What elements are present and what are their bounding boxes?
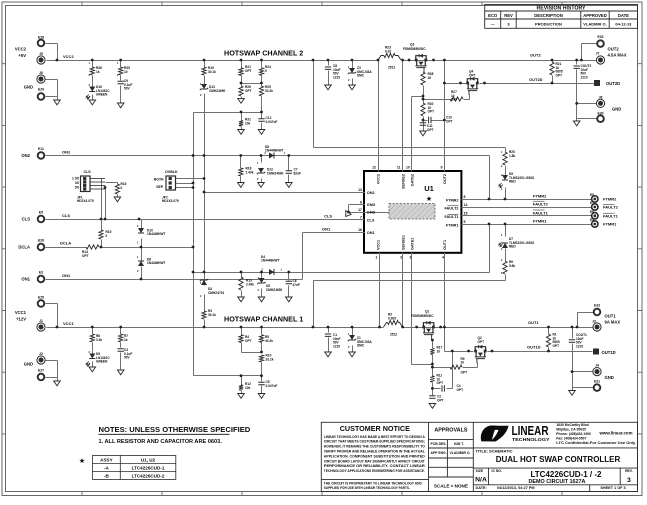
svg-text:13: 13 (358, 188, 362, 192)
svg-text:OPT: OPT (245, 89, 252, 93)
svg-text:0.02: 0.02 (385, 49, 391, 53)
svg-text:J5: J5 (39, 52, 43, 56)
svg-text:SUPPLIED FOR USE WITH LINEAR T: SUPPLIED FOR USE WITH LINEAR TECHNOLOGY … (324, 486, 410, 490)
svg-text:OUT2: OUT2 (608, 47, 620, 52)
svg-text:CMHZ4701: CMHZ4701 (208, 291, 225, 295)
svg-text:1k: 1k (124, 338, 128, 342)
svg-text:U1, U2: U1, U2 (141, 458, 156, 463)
svg-text:E30: E30 (597, 111, 603, 115)
svg-text:GATE2: GATE2 (411, 174, 415, 186)
svg-text:CIRCUIT THAT MEETS CUSTOMER-SU: CIRCUIT THAT MEETS CUSTOMER-SUPPLIED SPE… (324, 440, 425, 444)
svg-text:APPROVED: APPROVED (583, 13, 607, 18)
svg-text:1210: 1210 (333, 344, 340, 348)
svg-text:ON1: ON1 (322, 227, 331, 232)
svg-text:DEMO CIRCUIT 1627A: DEMO CIRCUIT 1627A (529, 479, 586, 485)
svg-text:1N4448HWT: 1N4448HWT (261, 259, 279, 263)
svg-text:9: 9 (440, 166, 442, 170)
svg-text:5.6k: 5.6k (509, 264, 515, 268)
svg-text:★: ★ (79, 457, 85, 465)
svg-text:OPT: OPT (245, 339, 252, 343)
svg-text:SMC: SMC (357, 74, 365, 78)
svg-text:12: 12 (372, 166, 376, 170)
svg-text:OPT: OPT (553, 344, 560, 348)
svg-text:OUT2: OUT2 (443, 174, 447, 184)
svg-text:E3: E3 (39, 271, 43, 275)
svg-text:9A MAX: 9A MAX (605, 320, 621, 325)
svg-text:OUT1: OUT1 (605, 314, 617, 319)
svg-text:30.1k: 30.1k (208, 313, 216, 317)
svg-text:CLS: CLS (367, 218, 375, 222)
svg-text:OPT: OPT (427, 128, 434, 132)
svg-text:E11: E11 (38, 147, 44, 151)
svg-text:OPT: OPT (446, 119, 453, 123)
svg-text:2512: 2512 (390, 333, 397, 337)
svg-text:HOWEVER, IT REMAINS THE CUSTOM: HOWEVER, IT REMAINS THE CUSTOMER'S RESPO… (324, 445, 425, 449)
svg-text:FTMR2: FTMR2 (533, 194, 547, 199)
svg-text:+12V: +12V (16, 317, 26, 322)
svg-text:OUT1: OUT1 (443, 240, 447, 250)
svg-text:SEP.: SEP. (156, 185, 164, 189)
svg-text:OUT1D: OUT1D (602, 350, 616, 355)
svg-text:OPT: OPT (461, 371, 468, 375)
svg-text:E25: E25 (38, 295, 44, 299)
svg-text:J6: J6 (39, 71, 43, 75)
svg-text:PCB DES.: PCB DES. (431, 442, 447, 446)
svg-text:0.047uF: 0.047uF (266, 120, 278, 124)
svg-text:2.49k: 2.49k (246, 170, 254, 174)
svg-text:FTMR1: FTMR1 (533, 219, 547, 224)
svg-text:CLS: CLS (62, 213, 70, 218)
svg-text:APP ENG.: APP ENG. (431, 451, 447, 455)
svg-text:U1: U1 (424, 184, 434, 193)
svg-text:OPT: OPT (556, 73, 563, 77)
svg-text:1. ALL RESISTOR AND CAPACITOR: 1. ALL RESISTOR AND CAPACITOR ARE 0603. (99, 439, 223, 445)
svg-text:OPT: OPT (469, 73, 476, 77)
svg-text:VCC1: VCC1 (377, 240, 381, 250)
svg-text:8: 8 (464, 195, 466, 199)
svg-text:BOTH: BOTH (154, 178, 164, 182)
svg-text:REV: REV (504, 13, 513, 18)
svg-text:3: 3 (627, 477, 631, 484)
svg-text:GND: GND (605, 375, 614, 380)
svg-text:DUAL HOT SWAP CONTROLLER: DUAL HOT SWAP CONTROLLER (496, 455, 621, 464)
svg-text:10k: 10k (245, 386, 251, 390)
svg-text:Phone: (408)432-1900: Phone: (408)432-1900 (556, 432, 591, 436)
svg-text:1.8k: 1.8k (509, 154, 515, 158)
svg-text:ECO: ECO (488, 13, 498, 18)
svg-text:GND: GND (24, 362, 33, 367)
svg-text:1210: 1210 (333, 75, 340, 79)
svg-text:E6: E6 (590, 210, 594, 214)
svg-text:04-12-13: 04-12-13 (615, 21, 632, 26)
svg-text:17: 17 (358, 208, 362, 212)
svg-text:0: 0 (121, 186, 123, 190)
svg-text:FTMR2: FTMR2 (603, 197, 617, 202)
svg-text:CMHZ4690: CMHZ4690 (209, 89, 226, 93)
svg-text:APPLICATION. COMPONENT SUBSTIT: APPLICATION. COMPONENT SUBSTITUTION AND … (324, 454, 426, 458)
svg-text:FAULT1: FAULT1 (444, 215, 458, 219)
svg-text:FAULT1: FAULT1 (533, 210, 549, 215)
svg-text:E4: E4 (590, 218, 594, 222)
svg-text:11: 11 (397, 166, 401, 170)
svg-text:2: 2 (400, 256, 402, 260)
svg-text:LINEAR: LINEAR (512, 423, 549, 438)
svg-text:E26: E26 (38, 239, 44, 243)
svg-text:LTC4226CUD-2: LTC4226CUD-2 (132, 474, 165, 479)
svg-text:TECHNOLOGY APPLICATIONS ENGINE: TECHNOLOGY APPLICATIONS ENGINEERING FOR … (324, 469, 425, 473)
svg-text:N/A: N/A (475, 477, 487, 484)
svg-text:ON2: ON2 (62, 150, 71, 155)
svg-text:ON1: ON1 (367, 231, 375, 235)
svg-text:10: 10 (124, 70, 128, 74)
svg-text:GND: GND (367, 211, 376, 215)
svg-text:-A: -A (104, 466, 110, 471)
svg-text:1.5X: 1.5X (72, 177, 80, 181)
svg-text:ON2: ON2 (21, 153, 30, 158)
svg-text:RED: RED (509, 180, 516, 184)
svg-text:3X: 3X (75, 181, 80, 185)
svg-text:E27: E27 (38, 368, 44, 372)
svg-text:LTC4226CUD-1 / -2: LTC4226CUD-1 / -2 (531, 470, 603, 479)
svg-text:FDMS86500DC: FDMS86500DC (411, 314, 434, 318)
svg-text:E8: E8 (590, 193, 594, 197)
svg-text:1: 1 (376, 256, 378, 260)
svg-text:DESCRIPTION: DESCRIPTION (534, 13, 563, 18)
svg-text:Fax: (408)434-0507: Fax: (408)434-0507 (556, 437, 586, 441)
svg-text:TECHNOLOGY: TECHNOLOGY (512, 437, 550, 442)
svg-text:SMC: SMC (357, 344, 365, 348)
svg-text:E7: E7 (590, 201, 594, 205)
svg-text:IC NO.: IC NO. (492, 469, 502, 473)
svg-text:VCC2: VCC2 (63, 54, 74, 59)
svg-text:FAULT1: FAULT1 (603, 214, 619, 219)
svg-text:FTMR2: FTMR2 (446, 198, 459, 202)
svg-text:GND: GND (367, 203, 376, 207)
svg-text:OVBLK: OVBLK (165, 170, 178, 174)
svg-text:OUT1D: OUT1D (527, 345, 541, 350)
svg-text:E32: E32 (597, 35, 603, 39)
svg-text:4: 4 (442, 256, 444, 260)
svg-text:www.linear.com: www.linear.com (599, 431, 633, 436)
svg-text:HOTSWAP CHANNEL 1: HOTSWAP CHANNEL 1 (224, 315, 303, 324)
svg-text:LTC4226CUD-1: LTC4226CUD-1 (132, 466, 165, 471)
svg-text:FDMS86500DC: FDMS86500DC (403, 47, 426, 51)
svg-text:CLS: CLS (22, 217, 31, 222)
svg-text:50V: 50V (124, 356, 131, 360)
svg-text:OPT: OPT (437, 398, 444, 402)
svg-text:SIZE: SIZE (476, 469, 484, 473)
svg-text:HOTSWAP CHANNEL 2: HOTSWAP CHANNEL 2 (224, 49, 303, 58)
svg-text:-B: -B (104, 474, 110, 479)
svg-text:VCC2: VCC2 (15, 47, 27, 52)
svg-text:0.047uF: 0.047uF (266, 384, 278, 388)
svg-text:ON1: ON1 (21, 277, 30, 282)
svg-text:0.005: 0.005 (388, 316, 396, 320)
svg-text:OPT: OPT (245, 69, 252, 73)
svg-text:5X: 5X (75, 186, 80, 190)
svg-text:FTMR1: FTMR1 (446, 223, 459, 227)
svg-text:2512: 2512 (388, 66, 395, 70)
svg-text:1N4448HWT: 1N4448HWT (147, 261, 165, 265)
svg-text:Q3: Q3 (410, 43, 414, 47)
svg-text:OUT1: OUT1 (528, 320, 539, 325)
svg-text:LTC Confidential-For Customer: LTC Confidential-For Customer Use Only (556, 441, 635, 445)
svg-text:OUT2D: OUT2D (529, 77, 543, 82)
svg-text:CLS: CLS (324, 214, 332, 219)
svg-text:CLS: CLS (84, 170, 92, 174)
svg-text:OPT: OPT (478, 340, 485, 344)
svg-text:+5V: +5V (18, 53, 26, 58)
svg-text:HD1X3-079: HD1X3-079 (162, 199, 179, 203)
svg-text:OPT: OPT (428, 110, 435, 114)
svg-text:6: 6 (360, 200, 362, 204)
svg-text:7: 7 (360, 215, 362, 219)
svg-text:J1: J1 (39, 319, 43, 323)
svg-text:★: ★ (426, 195, 432, 203)
svg-text:40.2k: 40.2k (265, 339, 273, 343)
svg-text:ASSY: ASSY (100, 458, 113, 463)
svg-text:14: 14 (464, 203, 468, 207)
svg-text:OPT: OPT (437, 381, 444, 385)
svg-text:1k: 1k (96, 70, 100, 74)
svg-text:10k: 10k (245, 121, 251, 125)
svg-text:82nF: 82nF (294, 171, 301, 175)
svg-text:5: 5 (464, 220, 466, 224)
svg-text:ON1: ON1 (62, 273, 71, 278)
svg-text:TITLE: SCHEMATIC: TITLE: SCHEMATIC (476, 448, 513, 453)
svg-text:E29: E29 (38, 87, 44, 91)
svg-text:OPT: OPT (457, 388, 464, 392)
svg-text:DCLA: DCLA (18, 245, 30, 250)
svg-text:OPT: OPT (451, 98, 458, 102)
svg-text:VLADIMIR O.: VLADIMIR O. (450, 451, 471, 455)
svg-text:FAULT2: FAULT2 (533, 202, 549, 207)
svg-text:3.3k: 3.3k (96, 338, 102, 342)
svg-text:2.49k: 2.49k (246, 282, 254, 286)
svg-text:GND: GND (612, 107, 621, 112)
svg-text:OPT: OPT (82, 254, 89, 258)
svg-text:10: 10 (437, 349, 441, 353)
svg-text:J3: J3 (592, 319, 596, 323)
svg-text:LINEAR TECHNOLOGY HAS MADE A B: LINEAR TECHNOLOGY HAS MADE A BEST EFFORT… (324, 435, 426, 439)
svg-text:E33: E33 (594, 303, 600, 307)
svg-text:CMHZ4690: CMHZ4690 (266, 288, 283, 292)
svg-text:VLADMIR O.: VLADMIR O. (583, 21, 607, 26)
svg-text:DCLA: DCLA (60, 241, 71, 246)
svg-text:REV.: REV. (625, 469, 633, 473)
svg-text:E28: E28 (38, 35, 44, 39)
svg-text:10: 10 (406, 166, 410, 170)
svg-text:CMHZ4690: CMHZ4690 (267, 171, 284, 175)
svg-text:15: 15 (464, 211, 468, 215)
svg-text:VCC1: VCC1 (15, 310, 27, 315)
svg-text:KIM T.: KIM T. (454, 442, 464, 446)
svg-text:J2: J2 (39, 352, 43, 356)
svg-text:Milpitas, CA 95035: Milpitas, CA 95035 (556, 427, 586, 431)
svg-text:33.2k: 33.2k (265, 89, 273, 93)
svg-text:E5: E5 (39, 211, 43, 215)
svg-text:1N4448HWT: 1N4448HWT (265, 149, 283, 153)
svg-text:SENSE1: SENSE1 (401, 235, 405, 250)
svg-text:FAULT2: FAULT2 (603, 205, 619, 210)
svg-text:FAULT2: FAULT2 (444, 206, 458, 210)
svg-text:0: 0 (106, 234, 108, 238)
svg-text:CUSTOMER NOTICE: CUSTOMER NOTICE (340, 424, 410, 433)
svg-text:04/12/2013, 04:27 PM: 04/12/2013, 04:27 PM (497, 486, 535, 490)
svg-text:SENSE2: SENSE2 (401, 174, 405, 189)
svg-text:ON2: ON2 (367, 191, 375, 195)
svg-text:33.2k: 33.2k (266, 357, 274, 361)
svg-text:VERIFY PROPER AND RELIABLE OPE: VERIFY PROPER AND RELIABLE OPERATION IN … (324, 450, 425, 454)
svg-text:1210: 1210 (576, 344, 583, 348)
svg-text:0: 0 (265, 69, 267, 73)
svg-text:GREEN: GREEN (96, 93, 108, 97)
svg-text:DATE:: DATE: (476, 486, 487, 490)
svg-text:Q1: Q1 (425, 310, 429, 314)
svg-text:1N4448HWT: 1N4448HWT (147, 232, 165, 236)
svg-text:SCALE = NONE: SCALE = NONE (434, 484, 468, 489)
svg-text:DATE: DATE (618, 13, 629, 18)
svg-text:30.1k: 30.1k (208, 70, 216, 74)
svg-text:PRODUCTION: PRODUCTION (535, 21, 562, 26)
svg-text:4.5A MAX: 4.5A MAX (608, 53, 627, 58)
svg-text:1630 McCarthy Blvd.: 1630 McCarthy Blvd. (556, 423, 589, 427)
svg-text:J4: J4 (595, 363, 599, 367)
svg-text:FTMR1: FTMR1 (603, 222, 617, 227)
svg-text:REVISION HISTORY: REVISION HISTORY (536, 6, 586, 12)
svg-text:J7: J7 (596, 52, 600, 56)
svg-text:GND: GND (24, 85, 33, 90)
svg-text:APPROVALS: APPROVALS (434, 428, 468, 434)
svg-text:47nF: 47nF (293, 283, 300, 287)
svg-text:VCC2: VCC2 (377, 174, 381, 184)
svg-text:GATE1: GATE1 (411, 238, 415, 250)
svg-text:50V: 50V (124, 87, 131, 91)
svg-text:OUT2D: OUT2D (606, 81, 620, 86)
svg-text:10: 10 (461, 361, 465, 365)
svg-text:GREEN: GREEN (96, 360, 108, 364)
svg-text:NOTES: UNLESS OTHERWISE SPECIF: NOTES: UNLESS OTHERWISE SPECIFIED (99, 425, 251, 434)
svg-text:10: 10 (428, 76, 432, 80)
svg-text:CIRCUIT BOARD LAYOUT MAY SIGNI: CIRCUIT BOARD LAYOUT MAY SIGNIFICANTLY A… (324, 459, 426, 463)
svg-text:16: 16 (358, 228, 362, 232)
svg-text:HD1X4-079: HD1X4-079 (77, 199, 94, 203)
svg-text:E31: E31 (594, 380, 600, 384)
svg-text:PERFORMANCE OR RELIABILITY. C: PERFORMANCE OR RELIABILITY. CONTACT LINE… (324, 464, 426, 468)
svg-text:J8: J8 (599, 95, 603, 99)
svg-text:—: — (491, 21, 495, 26)
svg-text:SHEET 1 OF 3: SHEET 1 OF 3 (600, 486, 625, 490)
svg-text:3: 3 (409, 256, 411, 260)
svg-text:THE CIRCUIT IS PROPRIETARY TO: THE CIRCUIT IS PROPRIETARY TO LINEAR TEC… (324, 481, 423, 485)
svg-text:1210: 1210 (581, 75, 588, 79)
svg-text:VCC1: VCC1 (63, 321, 74, 326)
svg-text:RED: RED (509, 245, 516, 249)
svg-text:OUT2: OUT2 (530, 53, 541, 58)
